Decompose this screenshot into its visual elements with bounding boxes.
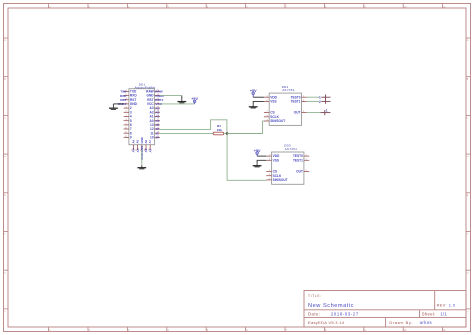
wire DD1 VCC pin to +5V xyxy=(160,103,195,105)
DD1 right pin 22 (RST) xyxy=(147,98,160,102)
wire DD1 bottom GND pin to ground xyxy=(141,150,143,165)
svg-text:Sheet:: Sheet: xyxy=(422,311,436,316)
svg-text:AK7451: AK7451 xyxy=(282,88,294,92)
svg-text:AK7451: AK7451 xyxy=(285,147,297,151)
wire DD2 VSS to ground xyxy=(253,101,264,104)
ground flag at DD3 VSS xyxy=(253,163,262,167)
svg-text:1: 1 xyxy=(269,155,270,157)
DD1 left pin 9 (6) xyxy=(124,123,132,127)
svg-text:8: 8 xyxy=(267,100,268,102)
svg-text:2: 2 xyxy=(303,96,304,98)
svg-text:1: 1 xyxy=(326,109,328,113)
svg-text:10: 10 xyxy=(155,136,159,140)
svg-text:TITLE:: TITLE: xyxy=(308,294,322,298)
svg-text:SIN/SOUT: SIN/SOUT xyxy=(270,119,285,123)
wire junction to DD3 SIN/SOUT xyxy=(227,134,266,181)
wire R1 to junction xyxy=(224,133,228,135)
+5V flag at DD1 VCC xyxy=(191,97,198,104)
connector P1 pin 1 xyxy=(319,95,330,100)
wire DD1 pin 12 over R1 to junction xyxy=(160,120,227,134)
ground flag below DD1 xyxy=(137,165,146,169)
svg-text:1/1: 1/1 xyxy=(440,311,447,316)
DD1 left pin 3 (RST) xyxy=(124,98,137,102)
svg-text:3: 3 xyxy=(303,100,304,102)
svg-text:1.0: 1.0 xyxy=(449,302,456,307)
DD1 left pin 10 (7) xyxy=(124,127,132,131)
connector P2 pin 1 xyxy=(321,109,331,116)
svg-text:5: 5 xyxy=(303,111,304,113)
DD1 left pin 5 (2) xyxy=(124,106,132,110)
svg-text:arkos: arkos xyxy=(420,320,433,325)
connector P1 pin 2 xyxy=(319,99,330,104)
DD1 left pin 7 (4) xyxy=(124,115,132,119)
wire +5V to DD2 VDD xyxy=(253,96,264,98)
DD1 right pin 16 (13) xyxy=(150,123,160,127)
DD1 left pin 4 (GND) xyxy=(124,102,138,106)
svg-text:7: 7 xyxy=(126,115,127,117)
svg-text:EasyEDA V5.3.14: EasyEDA V5.3.14 xyxy=(308,320,345,325)
DD1 left pin 12 (9) xyxy=(124,136,132,140)
svg-text:Date:: Date: xyxy=(308,311,321,316)
DD3 left pin 4 (SIN/SOUT) xyxy=(266,178,287,182)
DD3 right pin 5 (OUT) xyxy=(296,170,309,174)
DD3 left pin 7 (CS) xyxy=(266,170,277,174)
svg-text:Drawn By:: Drawn By: xyxy=(389,320,413,325)
DD1 right pin 15 (12) xyxy=(150,127,160,131)
DD1 left pin 1 (TXD) xyxy=(124,90,137,94)
DD1 right pin 18 (A1) xyxy=(150,115,160,119)
svg-text:8: 8 xyxy=(126,119,127,121)
svg-text:10: 10 xyxy=(150,136,154,140)
wire junction to DD2 SIN/SOUT xyxy=(227,121,264,133)
DD1 right pin 24 (RAW) xyxy=(146,90,160,94)
wire ground stem right of DD1 xyxy=(181,96,183,100)
DD1 left pin 8 (5) xyxy=(124,119,132,123)
DD3 right pin 3 (TEST1) xyxy=(293,158,309,162)
DD3 left pin 1 (VDD) xyxy=(266,154,280,158)
svg-text:New Schematic: New Schematic xyxy=(308,303,354,309)
DD1 left pin 2 (RXD) xyxy=(124,94,138,98)
wire DD2 TEST1 to P1 pin2 xyxy=(307,100,320,102)
wire ground stem xyxy=(112,104,114,106)
svg-text:SIN/SOUT: SIN/SOUT xyxy=(273,178,288,182)
svg-text:5: 5 xyxy=(306,170,307,172)
wire DD3 VSS to ground xyxy=(257,160,266,163)
DD2 left pin 8 (VSS) xyxy=(264,100,277,104)
wire DD1 GND2 pin to ground xyxy=(160,95,182,97)
DD1 bottom pin 26 (A5) xyxy=(136,139,140,151)
svg-text:12: 12 xyxy=(125,136,127,138)
svg-text:11: 11 xyxy=(125,132,127,134)
DD3 left pin 6 (SCLK) xyxy=(266,174,282,178)
DD1 bottom pin 25 (A4) xyxy=(131,139,135,151)
svg-text:7: 7 xyxy=(269,170,270,172)
svg-text:10k: 10k xyxy=(217,128,222,132)
svg-text:2018-03-27: 2018-03-27 xyxy=(331,311,359,316)
svg-text:8: 8 xyxy=(269,159,270,161)
wire DD1 GND pin to ground xyxy=(113,103,123,105)
DD1 right pin 13 (10) xyxy=(150,136,160,140)
svg-text:4: 4 xyxy=(267,119,268,121)
DD1 right pin 21 (VCC) xyxy=(147,102,160,106)
DD3 right pin 2 (TEST0) xyxy=(293,154,309,158)
svg-text:9: 9 xyxy=(126,123,127,125)
ground flag at DD2 VSS xyxy=(249,104,258,108)
DD1 left pin 11 (8) xyxy=(124,131,132,135)
wire DD2 TEST0 to P1 pin1 xyxy=(307,96,320,98)
title block xyxy=(304,291,466,328)
+5V flag at DD2 VDD xyxy=(250,89,257,97)
svg-text:TEST1: TEST1 xyxy=(293,158,303,162)
svg-text:3: 3 xyxy=(306,159,307,161)
svg-text:A7: A7 xyxy=(148,139,152,143)
svg-text:VSS: VSS xyxy=(273,158,279,162)
svg-text:OUT: OUT xyxy=(296,170,303,174)
svg-text:2: 2 xyxy=(306,155,307,157)
svg-text:A7: A7 xyxy=(148,148,152,152)
IC DD1 ArduinoProMini body xyxy=(129,89,155,145)
DD2 left pin 1 (VDD) xyxy=(264,95,278,99)
DD2 left pin 4 (SIN/SOUT) xyxy=(264,119,285,123)
DD1 right pin 23 (GND) xyxy=(147,94,160,98)
DD1 left pin 6 (3) xyxy=(124,110,132,114)
svg-text:9: 9 xyxy=(130,136,132,140)
svg-text:6: 6 xyxy=(267,115,268,117)
svg-text:REV: REV xyxy=(437,302,446,307)
wire DD1 pin 11 to R1 xyxy=(160,132,213,134)
DD1 bottom pin 27 (GND) xyxy=(140,137,144,151)
ground flag left of DD1 xyxy=(109,106,118,110)
DD2 right pin 3 (TEST1) xyxy=(291,100,307,104)
DD3 left pin 8 (VSS) xyxy=(266,158,279,162)
wire +5V to DD3 VDD xyxy=(257,155,266,157)
svg-text:4: 4 xyxy=(269,178,270,180)
svg-text:G: G xyxy=(4,272,6,274)
DD1 right pin 14 (11) xyxy=(150,131,160,135)
DD1 right pin 19 (A2) xyxy=(150,110,160,114)
ground flag right of DD1 xyxy=(177,99,186,103)
DD2 right pin 2 (TEST0) xyxy=(291,95,307,99)
+5V flag at DD3 VDD xyxy=(254,149,261,156)
resistor R1 10k xyxy=(213,124,223,135)
svg-text:OUT: OUT xyxy=(294,111,301,115)
svg-text:TEST1: TEST1 xyxy=(291,100,301,104)
IC DD3 AK7451 body xyxy=(272,152,304,184)
DD2 right pin 5 (OUT) xyxy=(294,111,307,115)
svg-text:2: 2 xyxy=(319,100,321,104)
DD1 bottom pin 29 (A7) xyxy=(148,139,152,151)
svg-text:6: 6 xyxy=(269,174,270,176)
junction node xyxy=(226,132,229,135)
svg-text:6: 6 xyxy=(126,111,127,113)
DD1 bottom pin 28 (A6) xyxy=(144,139,148,151)
svg-text:1: 1 xyxy=(267,96,268,98)
svg-text:G: G xyxy=(467,272,469,274)
svg-text:10: 10 xyxy=(125,127,127,129)
svg-text:VSS: VSS xyxy=(270,100,276,104)
DD2 left pin 7 (CS) xyxy=(264,111,275,115)
svg-text:5: 5 xyxy=(126,107,127,109)
DD2 left pin 6 (SCLK) xyxy=(264,115,280,119)
IC DD2 AK7451 body xyxy=(269,93,301,125)
wire DD2 OUT to P2 pin1 xyxy=(307,112,321,114)
svg-text:7: 7 xyxy=(267,111,268,113)
DD1 right pin 20 (A3) xyxy=(150,106,160,110)
DD1 right pin 17 (A0) xyxy=(150,119,160,123)
